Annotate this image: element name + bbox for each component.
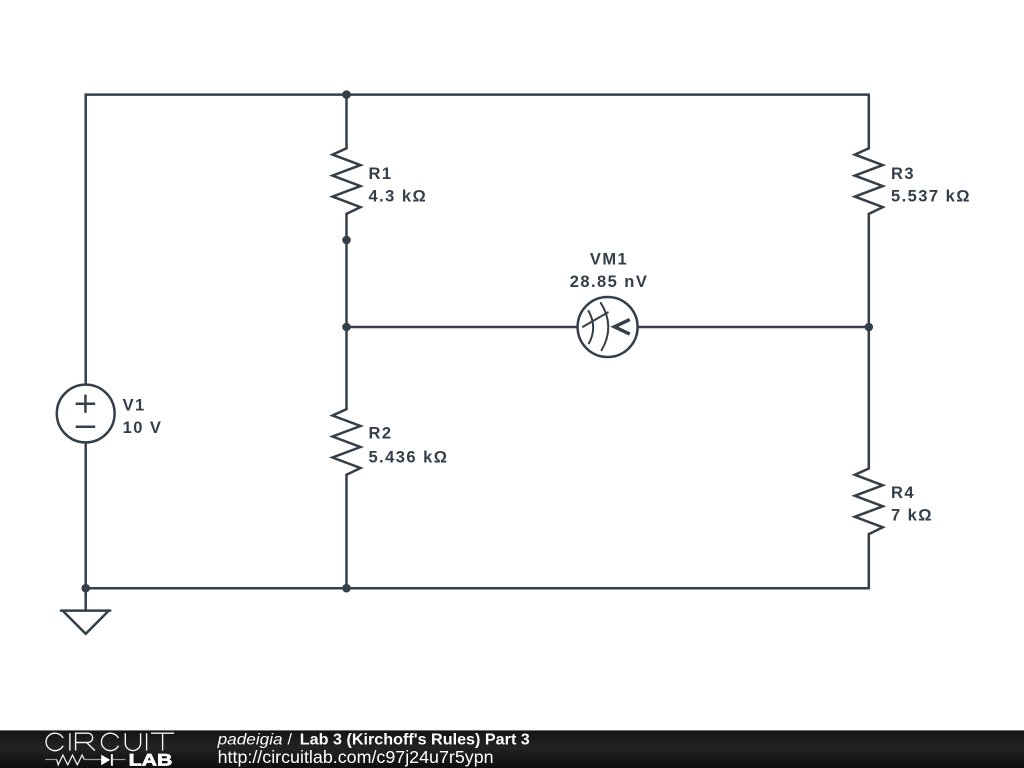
svg-text:5.537 kΩ: 5.537 kΩ bbox=[891, 188, 971, 206]
svg-text:VM1: VM1 bbox=[590, 250, 628, 268]
svg-text:R2: R2 bbox=[369, 425, 393, 443]
svg-text:10 V: 10 V bbox=[123, 419, 163, 437]
svg-text:padeigia: padeigia bbox=[217, 731, 283, 748]
svg-text:R3: R3 bbox=[891, 165, 915, 183]
svg-text:Lab 3 (Kirchoff's Rules) Part: Lab 3 (Kirchoff's Rules) Part 3 bbox=[300, 731, 530, 748]
svg-text:V1: V1 bbox=[123, 396, 146, 414]
svg-text:7 kΩ: 7 kΩ bbox=[891, 507, 933, 525]
svg-text:http://circuitlab.com/c97j24u7: http://circuitlab.com/c97j24u7r5ypn bbox=[218, 747, 494, 767]
svg-text:/: / bbox=[288, 731, 293, 748]
svg-text:4.3 kΩ: 4.3 kΩ bbox=[369, 188, 428, 206]
svg-text:28.85 nV: 28.85 nV bbox=[570, 273, 649, 291]
svg-text:R1: R1 bbox=[369, 165, 393, 183]
svg-text:LAB: LAB bbox=[129, 751, 173, 768]
svg-text:R4: R4 bbox=[891, 484, 915, 502]
svg-text:5.436 kΩ: 5.436 kΩ bbox=[369, 448, 449, 466]
